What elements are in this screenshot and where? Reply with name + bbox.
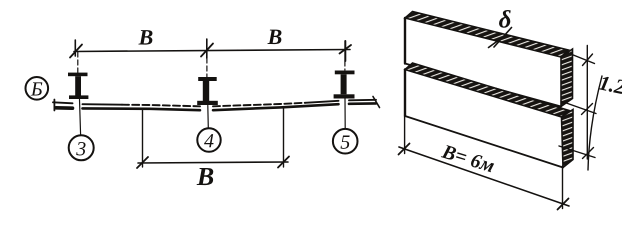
panel P1 top face (hatched) [405, 12, 569, 58]
svg-text:В: В [267, 24, 283, 49]
panel P1 right end face (hatched) [561, 49, 573, 107]
axis line column 1 (dashed) [78, 52, 81, 135]
svg-text:1.2: 1.2 [597, 70, 622, 99]
slab top edge (dashed joints line) [53, 100, 376, 107]
panel P2 right end face (hatched) [562, 110, 574, 168]
svg-text:5: 5 [340, 132, 350, 154]
label B (first bay) [138, 24, 154, 49]
label delta with leader [489, 6, 512, 47]
svg-text:Б: Б [30, 78, 43, 100]
bottom dimension extension line left [142, 109, 144, 168]
row axis circle Б [26, 77, 49, 101]
slab bottom edge (solid line) [56, 103, 376, 110]
svg-text:В: В [138, 24, 154, 49]
slab edge left cut tick [53, 100, 55, 111]
column axis circle 3 [69, 135, 94, 160]
svg-text:В= 6м: В= 6м [439, 140, 498, 177]
right vertical dimension line (panel heights) [559, 46, 596, 160]
slab right end tick [373, 97, 380, 108]
bottom dimension B=6m of panel [399, 116, 570, 210]
label 1.2 with curved leader [588, 70, 622, 170]
column axis circle 4 [197, 128, 220, 152]
axis line column 2 (dashed) [207, 58, 208, 128]
column I-beam 1 [68, 73, 88, 99]
tick middle of top dimension line [201, 39, 213, 58]
panel P2 top face (hatched) [405, 63, 569, 117]
svg-text:В: В [196, 162, 214, 191]
label B (second bay) [267, 24, 283, 49]
column axis circle 5 [333, 129, 358, 154]
bottom dimension line B [137, 157, 289, 192]
panel P1 front face [405, 18, 561, 107]
column I-beam 3 [334, 71, 355, 99]
column I-beam 2 [197, 77, 218, 105]
tick left end of top dimension line [70, 40, 82, 58]
svg-text:3: 3 [75, 138, 86, 160]
bottom dimension extension line right [283, 108, 285, 168]
dimension line top (span B + B) [74, 50, 350, 52]
axis line column 3 (dashed) [344, 61, 346, 129]
svg-text:4: 4 [204, 130, 214, 152]
panel P2 front face [405, 70, 563, 168]
tick right end of top dimension line [340, 41, 352, 61]
